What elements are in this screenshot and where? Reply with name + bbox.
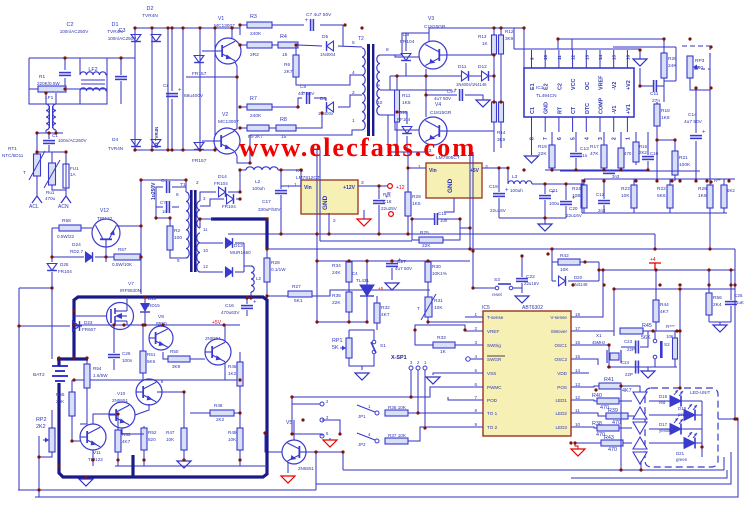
transformer T2 core bbox=[367, 44, 374, 136]
wire IC1 top pin 12 bbox=[572, 50, 574, 68]
label D12 bbox=[478, 64, 487, 70]
wire bbox=[171, 28, 173, 91]
label C27 bbox=[397, 259, 406, 265]
junction bbox=[235, 75, 238, 78]
svg-text:FR104: FR104 bbox=[58, 269, 72, 274]
wire IC5 pin 10 bbox=[571, 426, 589, 428]
junction bbox=[168, 216, 171, 219]
label D6 bbox=[320, 96, 326, 102]
label R50v bbox=[172, 364, 181, 369]
label V12 bbox=[100, 208, 109, 214]
label +12 bbox=[396, 185, 405, 191]
pin label TO 2 IC5 bbox=[487, 425, 498, 430]
svg-text:470: 470 bbox=[624, 151, 632, 156]
pin label VSS IC5 bbox=[487, 371, 496, 376]
wire bbox=[583, 179, 585, 185]
junction bbox=[166, 148, 169, 151]
wire bbox=[603, 132, 605, 145]
svg-text:+4: +4 bbox=[650, 257, 656, 263]
label R16 bbox=[639, 144, 648, 149]
svg-text:S1: S1 bbox=[380, 343, 386, 349]
label BAT2 bbox=[33, 372, 45, 378]
label R21v bbox=[679, 162, 691, 168]
resistor R15 bbox=[618, 148, 624, 168]
wire bbox=[239, 450, 241, 466]
resistor R35 bbox=[346, 292, 352, 312]
wire bbox=[81, 227, 92, 229]
label LM7805CT bbox=[436, 155, 460, 161]
wire bbox=[589, 427, 597, 428]
svg-text:OSC1: OSC1 bbox=[554, 343, 567, 348]
label V9 bbox=[158, 314, 164, 320]
diode D3 bbox=[151, 140, 161, 147]
junction bbox=[365, 320, 368, 323]
svg-text:V1: V1 bbox=[218, 16, 224, 22]
label V10 bbox=[117, 391, 126, 396]
label T1p6 bbox=[176, 192, 179, 198]
wire bbox=[106, 74, 107, 76]
junction bbox=[238, 411, 241, 414]
wire T2 pin10 bbox=[380, 115, 388, 152]
svg-text:R33: R33 bbox=[437, 335, 446, 341]
svg-text:T: T bbox=[417, 306, 420, 312]
wire bbox=[48, 145, 50, 152]
junction bbox=[729, 268, 732, 271]
junction bbox=[57, 356, 60, 359]
label R52v bbox=[148, 437, 156, 442]
wire bbox=[37, 151, 66, 153]
junction bbox=[471, 286, 474, 289]
svg-text:C1815GR: C1815GR bbox=[424, 24, 446, 30]
transformer T1 primary bbox=[186, 192, 189, 258]
pin label LED1 IC5 bbox=[556, 398, 568, 403]
svg-text:V11: V11 bbox=[93, 450, 101, 455]
pin 11 IC1 bbox=[557, 55, 562, 60]
wire bbox=[235, 152, 250, 163]
label R24v bbox=[572, 193, 581, 199]
svg-text:3: 3 bbox=[485, 164, 488, 170]
label D6v bbox=[318, 111, 334, 116]
wire (thick stub) bbox=[131, 455, 134, 477]
label V11 bbox=[93, 450, 101, 455]
svg-text:C15: C15 bbox=[438, 211, 447, 216]
wire IC5 pin 11 bbox=[571, 412, 589, 414]
wire bbox=[163, 352, 168, 359]
svg-text:C27: C27 bbox=[397, 259, 406, 265]
svg-text:+: + bbox=[287, 185, 291, 191]
wire bbox=[633, 208, 635, 213]
label R22 bbox=[657, 186, 666, 192]
label C12 bbox=[596, 192, 605, 197]
wire bbox=[93, 414, 118, 424]
wire bbox=[74, 325, 82, 327]
crystal X1 bbox=[607, 350, 621, 363]
junction bbox=[161, 323, 164, 326]
svg-text:C23: C23 bbox=[624, 339, 633, 344]
pin 10 IC5 bbox=[575, 422, 581, 427]
resistor R40 bbox=[592, 393, 619, 411]
label R19v bbox=[538, 151, 547, 157]
label JP1 bbox=[358, 414, 366, 419]
wire bbox=[443, 219, 460, 240]
junction bbox=[116, 412, 119, 415]
svg-text:680: 680 bbox=[695, 65, 703, 71]
diode D7 FR157 bbox=[194, 56, 204, 63]
svg-text:4K7: 4K7 bbox=[622, 388, 632, 394]
svg-text:C13: C13 bbox=[580, 146, 589, 152]
svg-text:MUR1660: MUR1660 bbox=[230, 250, 251, 255]
wire IC5 pin 1 bbox=[465, 316, 483, 318]
label R35v bbox=[332, 300, 341, 306]
wire bbox=[239, 386, 241, 428]
resistor R28 bbox=[264, 258, 270, 282]
wire bbox=[565, 184, 567, 200]
svg-text:R39: R39 bbox=[608, 408, 618, 414]
junction bbox=[468, 247, 471, 250]
label D8 value bbox=[192, 158, 207, 164]
junction bbox=[50, 286, 53, 289]
wire top rail bbox=[135, 27, 240, 29]
label C24 bbox=[621, 360, 630, 365]
junction bbox=[733, 417, 736, 420]
svg-text:COMP: COMP bbox=[599, 97, 605, 114]
label T2 pin2 bbox=[352, 90, 355, 96]
label C14v bbox=[684, 119, 703, 125]
wire bbox=[250, 292, 252, 298]
label K-2 bbox=[296, 168, 304, 174]
pin label -V1 bbox=[612, 106, 618, 114]
wire bbox=[657, 85, 664, 87]
wire bbox=[575, 132, 577, 152]
wire bbox=[396, 76, 398, 90]
wire bbox=[363, 210, 365, 219]
wire bbox=[317, 261, 349, 322]
wire bbox=[200, 242, 223, 244]
wire bbox=[551, 249, 553, 281]
wire bbox=[460, 227, 470, 229]
thermistor RT1 bbox=[29, 151, 45, 180]
pin 12 IC1 bbox=[571, 54, 576, 60]
label C20 bbox=[569, 206, 578, 211]
wire bbox=[690, 78, 710, 90]
wire IC1 top pin 13 bbox=[585, 50, 587, 68]
junction bbox=[550, 247, 553, 250]
svg-text:TVR4N: TVR4N bbox=[142, 13, 158, 19]
label D3 bbox=[154, 127, 159, 148]
pin label SWGR IC5 bbox=[487, 357, 502, 362]
pin 4 IC5 bbox=[474, 354, 477, 359]
resistor R44 bbox=[653, 300, 659, 322]
svg-text:OSC2: OSC2 bbox=[554, 357, 567, 362]
svg-text:R31: R31 bbox=[434, 298, 443, 304]
svg-text:D1: D1 bbox=[112, 22, 119, 28]
label C17v bbox=[258, 207, 281, 212]
resistor R32 bbox=[374, 303, 380, 323]
label C2 bbox=[67, 22, 74, 28]
pin 16 IC5 bbox=[575, 340, 581, 345]
label D2 bbox=[147, 6, 154, 12]
svg-text:10: 10 bbox=[203, 248, 208, 253]
svg-text:Cr: Cr bbox=[163, 83, 168, 89]
wire bbox=[269, 127, 276, 129]
wire IC1 top pin 11 bbox=[558, 50, 560, 68]
wire bbox=[719, 322, 721, 325]
svg-text:V9: V9 bbox=[158, 314, 164, 320]
svg-text:24K: 24K bbox=[332, 270, 341, 276]
pin 8 IC1 bbox=[530, 137, 536, 140]
label C5v bbox=[162, 209, 167, 214]
junction bbox=[213, 148, 216, 151]
label +5b bbox=[378, 286, 384, 291]
wire bbox=[29, 88, 38, 90]
wire vertical x470 bbox=[469, 152, 471, 249]
wire AC top bbox=[29, 57, 135, 59]
svg-text:TVR4N: TVR4N bbox=[107, 29, 123, 35]
resistor R18 bbox=[654, 104, 660, 126]
wire bbox=[608, 345, 610, 367]
svg-text:Vin: Vin bbox=[429, 168, 437, 174]
label C16v bbox=[221, 310, 240, 315]
wire bbox=[156, 206, 163, 208]
pin label CT bbox=[571, 106, 577, 114]
label D2 value bbox=[142, 13, 158, 19]
svg-text:2: 2 bbox=[196, 180, 199, 186]
capacitor C18 bbox=[373, 195, 389, 204]
label IC1b bbox=[536, 93, 557, 99]
svg-text:SWover: SWover bbox=[551, 329, 568, 334]
label V9v bbox=[156, 321, 167, 327]
svg-text:E2: E2 bbox=[544, 83, 550, 90]
label S1 bbox=[380, 343, 386, 349]
label C1 value bbox=[58, 138, 88, 143]
junction bbox=[651, 329, 654, 332]
resistor R24 bbox=[581, 185, 587, 208]
wire rail 171 bbox=[560, 170, 700, 172]
svg-text:LED-UNIT: LED-UNIT bbox=[690, 390, 711, 395]
svg-text:10K: 10K bbox=[434, 305, 443, 311]
label R31v bbox=[434, 305, 443, 311]
label R15v bbox=[624, 151, 632, 156]
wire vertical x141 bbox=[140, 180, 142, 294]
svg-text:3: 3 bbox=[474, 340, 477, 345]
junction bbox=[230, 26, 233, 29]
label R48 bbox=[214, 403, 223, 408]
svg-text:1A: 1A bbox=[70, 172, 77, 177]
wire bbox=[239, 352, 241, 362]
terminal minus circle bbox=[389, 212, 394, 217]
diode D5 bbox=[327, 41, 334, 51]
wire T2 pin9 bbox=[380, 89, 452, 91]
resistor R54 bbox=[84, 364, 90, 388]
wire bbox=[293, 420, 295, 440]
label R53 bbox=[122, 432, 131, 437]
resistor R46b 10K bbox=[673, 338, 678, 359]
label D11 bbox=[458, 64, 467, 70]
wire bbox=[348, 312, 350, 322]
switch S3 bbox=[495, 284, 513, 290]
label C3 bbox=[119, 28, 126, 34]
label R27 bbox=[292, 284, 301, 290]
wire bbox=[240, 169, 246, 171]
svg-text:D19: D19 bbox=[659, 394, 668, 399]
svg-text:+: + bbox=[702, 130, 706, 136]
diode D14 bbox=[219, 187, 226, 197]
junction bbox=[64, 150, 67, 153]
junction bbox=[238, 43, 241, 46]
wire bbox=[656, 126, 658, 170]
junction bbox=[35, 150, 38, 153]
wire bbox=[654, 359, 656, 367]
svg-text:100: 100 bbox=[174, 235, 182, 241]
wire bbox=[172, 187, 186, 192]
pin label POS IC5 bbox=[557, 385, 567, 390]
junction bbox=[571, 283, 574, 286]
junction bbox=[299, 168, 302, 171]
junction bbox=[709, 45, 712, 48]
label D1 value bbox=[107, 29, 123, 35]
junction bbox=[170, 148, 173, 151]
svg-text:R32: R32 bbox=[381, 305, 390, 311]
svg-text:R21: R21 bbox=[679, 155, 688, 161]
inductor LF1 right bbox=[53, 104, 56, 130]
label R2v bbox=[174, 235, 182, 241]
label C21v bbox=[549, 201, 560, 206]
label R16v bbox=[639, 150, 647, 155]
svg-text:V5: V5 bbox=[286, 420, 292, 426]
wire bbox=[52, 256, 84, 258]
label Cr value bbox=[184, 93, 204, 99]
diode D15 bbox=[227, 194, 234, 204]
label C19 bbox=[489, 184, 498, 190]
connector JP1 pins bbox=[320, 402, 324, 438]
svg-text:8: 8 bbox=[474, 408, 477, 413]
resistor R41 bbox=[599, 377, 632, 394]
label L2v bbox=[252, 186, 265, 191]
junction bbox=[658, 283, 661, 286]
svg-text:2K7: 2K7 bbox=[284, 69, 293, 75]
resistor R49 bbox=[237, 428, 243, 450]
label C19v bbox=[490, 208, 507, 213]
wire bbox=[723, 179, 725, 185]
label V4v bbox=[430, 110, 452, 116]
junction bbox=[139, 224, 142, 227]
label R50 bbox=[170, 349, 179, 354]
wire bbox=[580, 261, 599, 263]
label C10 bbox=[650, 151, 659, 156]
capacitor C24 bbox=[636, 361, 639, 374]
svg-text:R41: R41 bbox=[604, 377, 614, 383]
svg-text:R34: R34 bbox=[332, 263, 341, 269]
wire bbox=[493, 54, 495, 102]
label R46 bbox=[228, 364, 237, 369]
svg-text:R55: R55 bbox=[56, 392, 65, 397]
label D22 bbox=[148, 296, 157, 301]
pin label DTC bbox=[585, 103, 591, 114]
capacitor C1 bbox=[43, 141, 55, 144]
label FU1 bbox=[70, 166, 79, 171]
svg-text:FR157: FR157 bbox=[192, 158, 207, 164]
pin 9 IC5 bbox=[474, 422, 477, 427]
svg-text:820: 820 bbox=[148, 437, 156, 442]
junction bbox=[729, 283, 732, 286]
diode D13b MUR1660 bbox=[226, 267, 233, 277]
pin 5 IC1 bbox=[571, 137, 577, 140]
label Ru1 bbox=[46, 190, 55, 195]
wire IC1 top pin 16 bbox=[626, 50, 628, 68]
label D5v bbox=[320, 52, 336, 57]
label LF1 bbox=[45, 95, 54, 101]
wire bbox=[185, 180, 187, 192]
wire bbox=[140, 256, 141, 258]
label Rx bbox=[714, 178, 721, 183]
junction bbox=[347, 259, 350, 262]
svg-text:9: 9 bbox=[377, 83, 380, 89]
pin label VDD IC5 bbox=[557, 371, 567, 376]
wire bbox=[598, 262, 600, 281]
junction bbox=[143, 295, 146, 298]
label R11v bbox=[402, 100, 411, 106]
resistor R15 bbox=[492, 102, 497, 122]
wire bbox=[654, 331, 656, 339]
ground bbox=[476, 100, 490, 107]
label R19 bbox=[538, 144, 547, 150]
svg-text:R45: R45 bbox=[642, 323, 652, 329]
junction bbox=[639, 468, 642, 471]
pin 9 IC1 bbox=[530, 57, 535, 60]
wire bbox=[621, 346, 635, 348]
svg-text:R20: R20 bbox=[668, 56, 677, 62]
wire bbox=[316, 234, 318, 261]
svg-text:R44: R44 bbox=[660, 302, 669, 308]
wire bbox=[469, 75, 481, 77]
inductor L2 bbox=[246, 167, 278, 170]
wire bbox=[266, 282, 268, 298]
wire IC5 pin 16 bbox=[571, 344, 589, 346]
label R56 bbox=[713, 295, 722, 301]
wire rail 179 bbox=[584, 178, 735, 180]
transistor V9 bbox=[149, 326, 173, 350]
junction bbox=[314, 450, 317, 453]
wire bbox=[235, 271, 244, 273]
resistor R27 bbox=[288, 291, 312, 297]
wire bbox=[718, 418, 738, 420]
label C9 bbox=[447, 89, 456, 94]
label ABT6302 bbox=[522, 305, 543, 311]
wire bbox=[489, 75, 494, 77]
junction bbox=[122, 323, 125, 326]
transistor V12 bbox=[92, 219, 120, 247]
resistor R1 bbox=[38, 86, 66, 92]
svg-text:470u63V: 470u63V bbox=[221, 310, 240, 315]
junction bbox=[50, 255, 53, 258]
label D15v bbox=[222, 204, 236, 209]
wire bbox=[200, 199, 224, 206]
resistor R39 bbox=[606, 408, 628, 426]
svg-text:3: 3 bbox=[361, 180, 364, 186]
junction bbox=[597, 268, 600, 271]
junction bbox=[709, 180, 712, 183]
junction bbox=[619, 168, 622, 171]
wire bbox=[228, 170, 240, 192]
wire bbox=[405, 63, 407, 76]
svg-text:100n: 100n bbox=[122, 358, 133, 363]
junction bbox=[263, 431, 266, 434]
wire vertical x317 bbox=[316, 150, 318, 234]
dashed link RP3 bbox=[694, 46, 710, 69]
diode D4 bbox=[131, 140, 141, 147]
junction bbox=[607, 365, 610, 368]
junction bbox=[619, 384, 622, 387]
